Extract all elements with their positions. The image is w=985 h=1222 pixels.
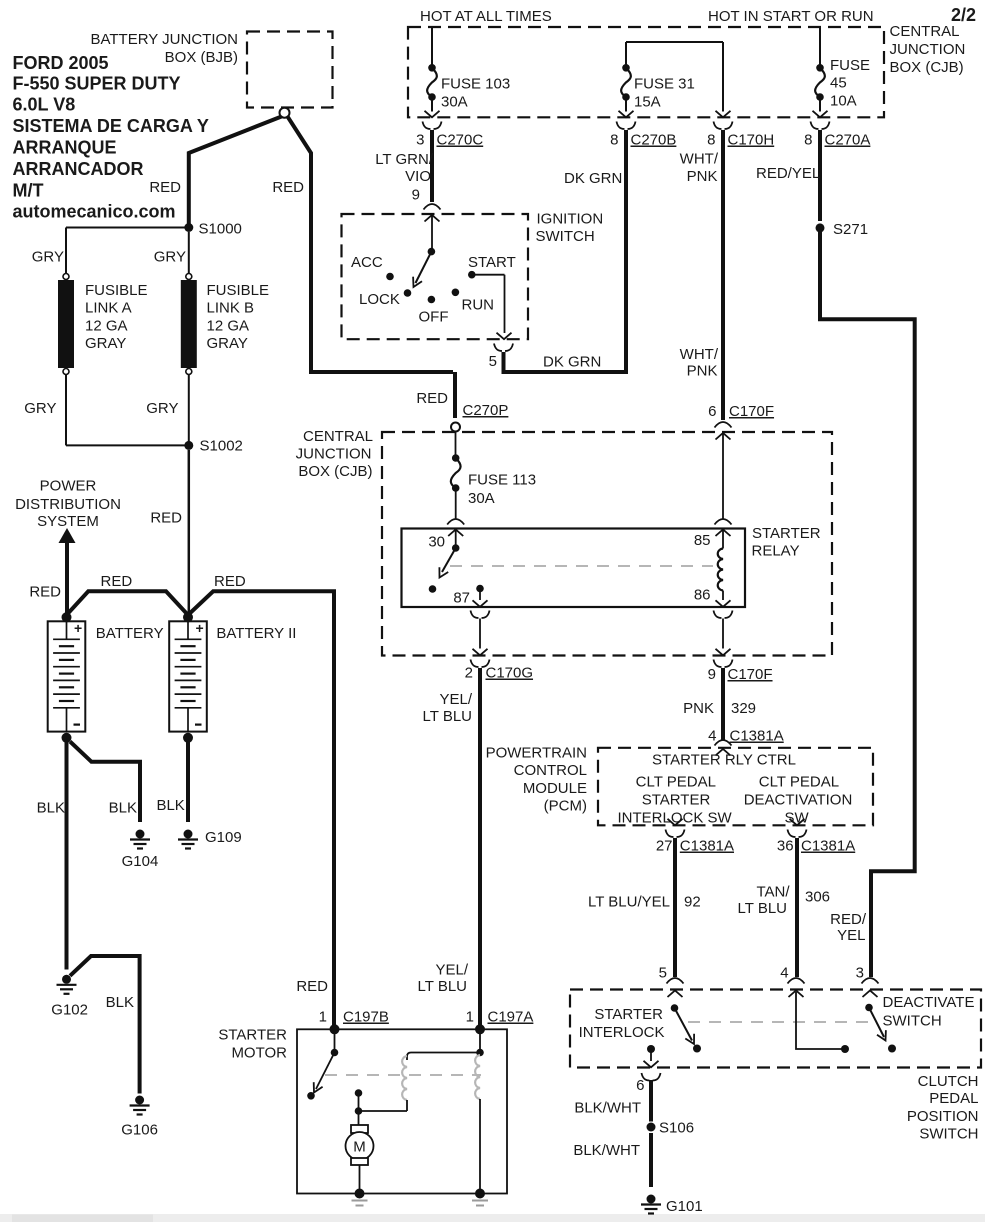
wire RED from S1002 to battery II: [188, 450, 191, 614]
wire coil to motor: [406, 1100, 408, 1111]
svg-text:92: 92: [684, 894, 701, 911]
svg-text:CENTRAL: CENTRAL: [303, 428, 373, 445]
connector C270A pin 8: [811, 122, 830, 130]
fusible link B: [186, 274, 192, 280]
ground G101: [647, 1195, 656, 1204]
battery BATTERY: [48, 621, 86, 731]
svg-text:CLUTCH: CLUTCH: [918, 1073, 979, 1090]
PCM exit arrow pin 27: [668, 819, 683, 826]
starter interlock arm: [675, 1008, 693, 1041]
svg-text:C170F: C170F: [728, 666, 773, 683]
svg-text:BATTERY JUNCTION: BATTERY JUNCTION: [90, 31, 238, 48]
wire LT GRN/VIO from C270C: [430, 130, 434, 202]
wire BLK from battery to G104: [70, 742, 140, 823]
ignition switch contact OFF: [428, 296, 436, 304]
starter motor contact lower: [355, 1107, 363, 1115]
svg-text:C270P: C270P: [463, 402, 509, 419]
svg-text:MODULE: MODULE: [523, 780, 587, 797]
svg-text:LT BLU: LT BLU: [418, 978, 467, 995]
svg-text:START: START: [468, 254, 516, 271]
svg-text:BOX (BJB): BOX (BJB): [165, 49, 238, 66]
svg-text:C270A: C270A: [825, 132, 871, 149]
fuse 31 15A: [622, 64, 630, 72]
svg-text:SWITCH: SWITCH: [536, 228, 595, 245]
svg-text:OFF: OFF: [419, 309, 449, 326]
svg-text:STARTER RLY CTRL: STARTER RLY CTRL: [652, 752, 796, 769]
starter motor box: [297, 1029, 507, 1193]
ground G104: [136, 830, 145, 839]
svg-text:FORD 2005: FORD 2005: [13, 53, 109, 73]
svg-text:GRY: GRY: [154, 249, 186, 266]
wire fuse 113 to relay pin 30: [455, 491, 457, 519]
svg-text:G102: G102: [51, 1002, 88, 1019]
starter interlock pivot: [671, 1004, 679, 1012]
svg-text:ARRANQUE: ARRANQUE: [13, 138, 117, 158]
relay contact dot: [429, 585, 437, 593]
wire pin 86 to C170F: [722, 619, 724, 649]
svg-text:RED: RED: [101, 573, 133, 590]
svg-text:CONTROL: CONTROL: [514, 762, 587, 779]
deactivate switch entry arrow: [863, 991, 878, 998]
fuse 45 10A: [816, 64, 824, 72]
wire PNK from C170F to PCM: [721, 668, 725, 740]
wire GRY from S1000 to fusible link B: [188, 232, 190, 274]
svg-text:HOT IN START OR RUN: HOT IN START OR RUN: [708, 8, 874, 25]
pin 4 wire inside clutch box: [789, 991, 804, 998]
svg-text:6: 6: [708, 403, 716, 420]
svg-text:30: 30: [428, 534, 445, 551]
svg-text:C1381A: C1381A: [730, 728, 784, 745]
svg-text:85: 85: [694, 532, 711, 549]
PCM dashed box: [598, 748, 873, 826]
svg-text:RED/YEL: RED/YEL: [756, 165, 820, 182]
splice S1000: [184, 223, 193, 232]
svg-text:RED: RED: [214, 573, 246, 590]
battery junction box (BJB) dashed box: [247, 32, 333, 108]
svg-text:G106: G106: [121, 1122, 158, 1139]
wire BLK/WHT from S106: [649, 1133, 653, 1187]
svg-text:FUSE 31: FUSE 31: [634, 76, 695, 93]
svg-text:PNK: PNK: [687, 168, 718, 185]
svg-text:PNK: PNK: [683, 700, 714, 717]
svg-text:GRY: GRY: [24, 400, 56, 417]
svg-text:1: 1: [319, 1009, 327, 1026]
svg-text:VIO: VIO: [405, 168, 431, 185]
svg-text:12 GA: 12 GA: [207, 317, 250, 334]
clutch pedal switch pin 6 connector: [642, 1073, 661, 1081]
fuse 113 30A: [452, 454, 460, 462]
ignition switch contact START: [468, 271, 476, 279]
svg-text:RED/: RED/: [830, 911, 867, 928]
svg-text:LOCK: LOCK: [359, 291, 400, 308]
svg-text:G101: G101: [666, 1198, 703, 1215]
svg-text:FUSE 103: FUSE 103: [441, 76, 510, 93]
ignition switch arm: [416, 252, 432, 283]
connector C270P: [451, 423, 460, 432]
ground G109: [184, 830, 193, 839]
svg-text:C197A: C197A: [488, 1009, 534, 1026]
svg-text:G104: G104: [122, 853, 159, 870]
svg-text:SWITCH: SWITCH: [919, 1126, 978, 1143]
svg-text:FUSIBLE: FUSIBLE: [207, 282, 270, 299]
starter solenoid contact: [307, 1092, 315, 1100]
starter interlock output contact: [647, 1045, 655, 1053]
svg-text:F-550 SUPER DUTY: F-550 SUPER DUTY: [13, 74, 181, 94]
svg-text:36: 36: [777, 838, 794, 855]
ignition switch contact RUN: [452, 289, 460, 297]
svg-text:(PCM): (PCM): [544, 798, 587, 815]
starter motor C197B junction: [330, 1024, 340, 1034]
svg-text:2: 2: [465, 665, 473, 682]
svg-text:WHT/: WHT/: [680, 151, 719, 168]
svg-text:C170F: C170F: [729, 403, 774, 420]
svg-text:RED: RED: [296, 978, 328, 995]
starter relay box: [402, 529, 746, 608]
svg-text:SW: SW: [785, 809, 810, 826]
connector C270B pin 8: [617, 122, 636, 130]
fuse 45 wire: [819, 27, 821, 65]
svg-text:BOX (CJB): BOX (CJB): [298, 463, 372, 480]
svg-text:STARTER: STARTER: [594, 1006, 663, 1023]
connector C1381A pin 27: [666, 830, 685, 838]
wire LT BLU/YEL from pin 27: [673, 838, 677, 977]
svg-text:2/2: 2/2: [951, 5, 976, 25]
wire GRY from S1000 to fusible link A: [66, 227, 189, 229]
wire DK GRN from C270B: [624, 130, 628, 374]
svg-text:BOX (CJB): BOX (CJB): [890, 59, 964, 76]
svg-text:1: 1: [466, 1009, 474, 1026]
svg-text:RELAY: RELAY: [752, 543, 800, 560]
svg-text:FUSIBLE: FUSIBLE: [85, 282, 148, 299]
svg-text:3: 3: [416, 132, 424, 149]
starter motor hold-in coil: [475, 1055, 480, 1099]
wire BLK/WHT from pin 6: [649, 1080, 653, 1122]
svg-text:30A: 30A: [468, 490, 495, 507]
svg-text:RED: RED: [416, 390, 448, 407]
wire GRY from fusible link B to S1002: [188, 375, 190, 446]
svg-text:45: 45: [830, 75, 847, 92]
wire motor to ground: [359, 1165, 361, 1194]
starter solenoid switch wire: [334, 1033, 336, 1049]
svg-text:CLT PEDAL: CLT PEDAL: [636, 773, 716, 790]
svg-text:27: 27: [656, 838, 673, 855]
starter motor ground left: [355, 1189, 365, 1199]
starter interlock output arrow: [650, 1049, 652, 1061]
starter solenoid pivot: [331, 1049, 339, 1057]
svg-text:RED: RED: [150, 510, 182, 527]
connector C170F pin 9: [714, 660, 733, 668]
relay internal dashed line: [450, 565, 713, 567]
wire RED battery bus: [67, 591, 189, 615]
relay pin 30 entry arrow: [448, 530, 463, 537]
svg-text:C170H: C170H: [728, 132, 775, 149]
svg-text:C1381A: C1381A: [680, 838, 734, 855]
svg-text:5: 5: [659, 965, 667, 982]
svg-text:DK GRN: DK GRN: [543, 354, 601, 371]
svg-text:JUNCTION: JUNCTION: [296, 446, 372, 463]
ground G102: [62, 975, 71, 984]
battery BATTERY II: [169, 621, 207, 731]
svg-text:JUNCTION: JUNCTION: [890, 41, 966, 58]
relay coil entry pin 85: [716, 433, 731, 440]
svg-text:87: 87: [453, 590, 470, 607]
svg-text:INTERLOCK SW: INTERLOCK SW: [618, 809, 733, 826]
svg-text:HOT AT ALL TIMES: HOT AT ALL TIMES: [420, 8, 552, 25]
svg-text:IGNITION: IGNITION: [537, 211, 604, 228]
svg-text:LT GRN/: LT GRN/: [375, 151, 434, 168]
splice S271: [816, 223, 825, 232]
starter interlock contact: [693, 1045, 701, 1053]
splice S106: [647, 1123, 656, 1132]
svg-text:TAN/: TAN/: [756, 884, 790, 901]
BJB output terminal circle: [280, 108, 290, 118]
svg-text:STARTER: STARTER: [642, 791, 711, 808]
svg-text:S1000: S1000: [199, 221, 242, 238]
svg-text:SYSTEM: SYSTEM: [37, 513, 99, 530]
svg-text:POWER: POWER: [40, 478, 97, 495]
svg-text:SWITCH: SWITCH: [883, 1013, 942, 1030]
wire TAN/LT BLU from pin 36: [795, 838, 799, 977]
starter interlock entry arrow: [668, 991, 683, 998]
svg-text:8: 8: [804, 132, 812, 149]
svg-text:FUSE 113: FUSE 113: [468, 472, 536, 489]
relay coil: [718, 549, 723, 591]
svg-text:RED: RED: [272, 179, 304, 196]
svg-text:C1381A: C1381A: [801, 838, 855, 855]
deactivate switch pivot: [865, 1004, 873, 1012]
svg-text:CENTRAL: CENTRAL: [890, 23, 960, 40]
svg-text:CLT PEDAL: CLT PEDAL: [759, 773, 839, 790]
wire from C270P to fuse 113: [455, 432, 457, 456]
svg-text:LT BLU: LT BLU: [423, 708, 472, 725]
svg-text:329: 329: [731, 700, 756, 717]
svg-text:DK GRN: DK GRN: [564, 170, 622, 187]
svg-text:INTERLOCK: INTERLOCK: [579, 1024, 665, 1041]
svg-text:M/T: M/T: [13, 181, 44, 201]
wire RED/YEL from S271 to deactivate switch: [820, 232, 915, 977]
ignition switch contact LOCK: [404, 289, 412, 297]
fuse 103 output wire with arrow: [431, 100, 433, 111]
svg-text:86: 86: [694, 587, 711, 604]
fusible link A: [63, 274, 69, 280]
svg-text:MOTOR: MOTOR: [231, 1045, 287, 1062]
svg-text:YEL/: YEL/: [439, 691, 472, 708]
relay pin 87 exit cup: [471, 611, 490, 619]
svg-text:STARTER: STARTER: [752, 525, 821, 542]
wire BLK from G102 up to G106: [70, 956, 140, 1094]
svg-text:6.0L V8: 6.0L V8: [13, 95, 76, 115]
svg-text:RUN: RUN: [462, 297, 495, 314]
wire RED/YEL from C270A: [818, 130, 822, 221]
wire to C170H with arrow: [722, 42, 724, 112]
svg-text:C270B: C270B: [631, 132, 677, 149]
svg-text:8: 8: [707, 132, 715, 149]
svg-text:BATTERY: BATTERY: [96, 625, 164, 642]
relay pin 86 exit cup: [714, 611, 733, 619]
wire RED to C270P: [453, 372, 457, 418]
power distribution arrow: [59, 528, 76, 543]
connector C170G pin 2: [471, 660, 490, 668]
svg-text:G109: G109: [205, 829, 242, 846]
svg-text:9: 9: [412, 187, 420, 204]
svg-text:BATTERY II: BATTERY II: [216, 625, 296, 642]
ignition switch contact ACC: [386, 273, 394, 281]
starter motor ground right: [475, 1189, 485, 1199]
deactivate switch arm: [869, 1008, 884, 1038]
starter motor M symbol: [351, 1125, 368, 1133]
connector C170H pin 8: [714, 122, 733, 130]
svg-text:S271: S271: [833, 221, 868, 238]
svg-text:WHT/: WHT/: [680, 346, 719, 363]
svg-text:PNK: PNK: [687, 363, 718, 380]
svg-text:15A: 15A: [634, 94, 661, 111]
svg-text:automecanico.com: automecanico.com: [13, 202, 176, 222]
starter motor contact upper: [355, 1089, 363, 1097]
svg-text:ACC: ACC: [351, 254, 383, 271]
svg-text:306: 306: [805, 889, 830, 906]
svg-text:ARRANCADOR: ARRANCADOR: [13, 159, 144, 179]
svg-text:LT BLU: LT BLU: [738, 900, 787, 917]
fuse 31 output wire with arrow: [625, 100, 627, 111]
svg-text:DEACTIVATION: DEACTIVATION: [744, 791, 853, 808]
clutch pedal position switch dashed box: [570, 990, 981, 1068]
svg-text:C170G: C170G: [486, 665, 534, 682]
wire DK GRN from pin 5: [504, 352, 627, 372]
ground G106: [135, 1096, 144, 1105]
svg-text:BLK: BLK: [109, 800, 137, 817]
wire YEL/LT BLU from C170G: [478, 668, 482, 1025]
svg-text:GRAY: GRAY: [207, 335, 248, 352]
svg-text:10A: 10A: [830, 93, 857, 110]
starter motor pull-in coil: [402, 1056, 407, 1100]
ignition switch START output wire: [472, 274, 505, 276]
svg-text:PEDAL: PEDAL: [929, 1090, 978, 1107]
svg-text:C197B: C197B: [343, 1009, 389, 1026]
svg-text:RED: RED: [29, 584, 61, 601]
ignition switch dashed box: [342, 214, 529, 339]
relay pivot 30: [452, 544, 460, 552]
svg-text:+: +: [74, 620, 82, 636]
ignition switch pin 5 connector: [494, 344, 513, 352]
fuse 45 output wire with arrow: [819, 100, 821, 111]
svg-text:GRAY: GRAY: [85, 335, 126, 352]
fuse 103 30A: [428, 64, 436, 72]
connector C270C pin 3: [423, 122, 442, 130]
svg-text:6: 6: [636, 1077, 644, 1094]
ignition switch pivot: [428, 248, 436, 256]
pin 4 contact dot: [841, 1045, 849, 1053]
svg-text:C270C: C270C: [437, 132, 484, 149]
wire BLK from battery II to G109: [186, 742, 190, 822]
svg-text:BLK: BLK: [37, 800, 65, 817]
svg-text:3: 3: [856, 965, 864, 982]
svg-text:RED: RED: [149, 179, 181, 196]
wire pin 87 to C170G: [479, 619, 481, 649]
PCM entry arrow pin 4: [716, 749, 731, 756]
PCM exit arrow pin 36: [790, 819, 805, 826]
wire WHT/PNK from C170H: [721, 130, 725, 420]
starter solenoid arm: [316, 1053, 335, 1090]
svg-text:GRY: GRY: [32, 249, 64, 266]
svg-text:5: 5: [489, 353, 497, 370]
svg-text:+: +: [196, 620, 204, 636]
svg-text:POSITION: POSITION: [907, 1108, 979, 1125]
fuse 31 wire: [625, 42, 627, 65]
starter motor C197A junction: [475, 1024, 485, 1034]
wire BLK from battery to G102: [65, 742, 69, 970]
connector C1381A pin 36: [788, 830, 807, 838]
svg-text:12 GA: 12 GA: [85, 317, 128, 334]
svg-text:LT BLU/YEL: LT BLU/YEL: [588, 894, 670, 911]
svg-text:4: 4: [708, 728, 716, 745]
wire GRY from fusible link A to S1002: [65, 375, 67, 446]
svg-text:9: 9: [708, 666, 716, 683]
svg-text:POWERTRAIN: POWERTRAIN: [486, 745, 587, 762]
starter motor internal dashed line: [325, 1074, 481, 1076]
wire RED fork from BJB to S1000: [189, 117, 282, 225]
deactivate switch contact: [888, 1045, 896, 1053]
svg-text:DEACTIVATE: DEACTIVATE: [883, 994, 975, 1011]
central junction box (CJB) top dashed box: [408, 27, 884, 117]
wire hold-in coil to ground: [479, 1099, 481, 1194]
svg-text:YEL: YEL: [837, 927, 865, 944]
svg-text:BLK: BLK: [156, 797, 184, 814]
splice S1002: [184, 441, 193, 450]
fuse 103 wire: [431, 27, 433, 65]
svg-text:LINK B: LINK B: [207, 300, 255, 317]
wire RED fork from BJB down-right: [288, 117, 454, 373]
svg-text:GRY: GRY: [146, 400, 178, 417]
svg-text:8: 8: [610, 132, 618, 149]
svg-text:YEL/: YEL/: [435, 962, 468, 979]
svg-text:DISTRIBUTION: DISTRIBUTION: [15, 496, 121, 513]
wire C197A to coils: [479, 1033, 481, 1053]
relay switch arm: [442, 548, 456, 572]
svg-text:FUSE: FUSE: [830, 57, 870, 74]
svg-text:S106: S106: [659, 1120, 694, 1137]
svg-text:BLK/WHT: BLK/WHT: [574, 1100, 641, 1117]
central junction box (CJB) second dashed box: [382, 432, 832, 656]
svg-text:30A: 30A: [441, 94, 468, 111]
svg-text:4: 4: [780, 965, 788, 982]
svg-text:SISTEMA DE CARGA Y: SISTEMA DE CARGA Y: [13, 116, 209, 136]
svg-text:LINK A: LINK A: [85, 300, 132, 317]
svg-text:BLK/WHT: BLK/WHT: [573, 1142, 640, 1159]
bottom page strip: [0, 1214, 985, 1222]
svg-text:S1002: S1002: [200, 438, 243, 455]
clutch box internal dashed line: [688, 1021, 876, 1023]
svg-text:STARTER: STARTER: [218, 1027, 287, 1044]
bus wire in CJB: [626, 41, 723, 43]
svg-text:M: M: [353, 1139, 366, 1156]
svg-text:BLK: BLK: [106, 994, 134, 1011]
ignition switch entry arrow: [425, 215, 440, 222]
